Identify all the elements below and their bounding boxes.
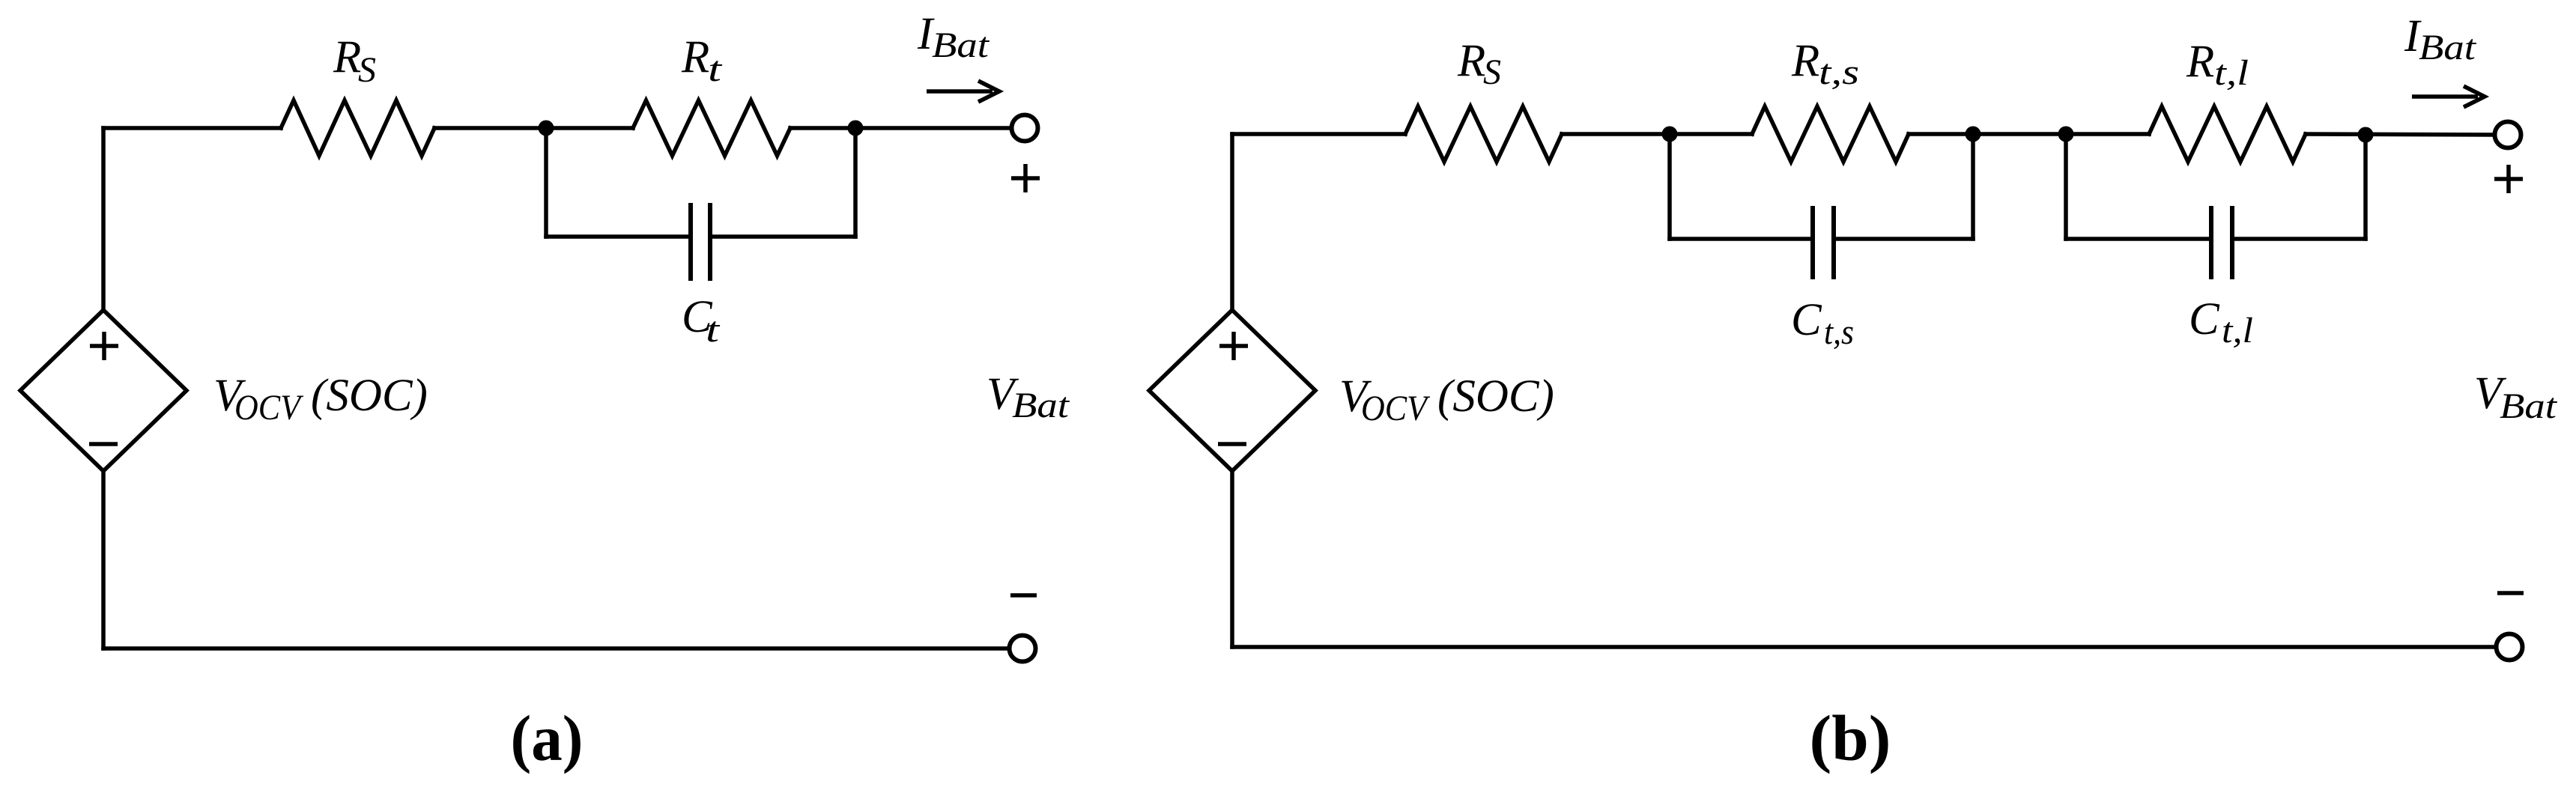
node F junction dot (b): [2358, 127, 2374, 143]
label C_t (a): [682, 292, 721, 350]
wire: (a) cap branch bottom left horizontal to C_t: [546, 234, 691, 239]
svg-text:t,s: t,s: [1819, 52, 1859, 92]
wire: (b) cap1 branch bottom right horizontal from C_t,s: [1834, 237, 1973, 241]
wire: (b) cap2 branch left vertical from node E: [2064, 134, 2068, 239]
svg-text:(a): (a): [511, 702, 584, 774]
terminal circle + (a): [1012, 115, 1038, 142]
wire: (a) cap branch left vertical from node A: [544, 128, 548, 237]
svg-text:t,s: t,s: [1824, 312, 1854, 352]
svg-text:C: C: [1791, 295, 1822, 345]
plus terminal mark (a): [1011, 164, 1040, 192]
label I_Bat (b): [2404, 11, 2477, 67]
terminal circle - (a): [1010, 636, 1036, 662]
wire: (a) top right from R_t through node B to + terminal: [790, 126, 1010, 130]
current arrow I_Bat (b): [2412, 86, 2485, 107]
plus mark inside source (a): [90, 332, 118, 360]
wire: (b) left vertical from top wire down to source top: [1230, 134, 1234, 310]
node C junction dot (b): [1662, 127, 1678, 142]
dependent source U2 V_OCV diamond (b): [1149, 310, 1315, 471]
wire: (a) top middle between R_S and R_t through node A: [434, 126, 633, 130]
node D junction dot (b): [1966, 127, 1981, 142]
svg-text:Bat: Bat: [2500, 386, 2558, 426]
svg-text:(b): (b): [1810, 702, 1891, 774]
minus mark inside source (b): [1218, 442, 1246, 446]
svg-text:R: R: [2186, 37, 2214, 87]
resistor R_t,s (b) zigzag: [1752, 106, 1909, 162]
svg-text:R: R: [333, 32, 361, 82]
svg-text:Bat: Bat: [2419, 28, 2477, 67]
current arrow I_Bat (a): [927, 81, 999, 102]
label V_Bat (a): [987, 369, 1070, 425]
capacitor C_t,s plates (b): [1813, 208, 1834, 277]
wire: (a) cap branch bottom right horizontal from C_t: [710, 234, 855, 239]
svg-text:(SOC): (SOC): [1437, 371, 1554, 422]
svg-text:t,l: t,l: [2214, 53, 2249, 93]
label V_OCV(SOC) (a): [213, 371, 428, 428]
wire: (a) cap branch right vertical up to node B: [853, 128, 858, 237]
wire: (b) left vertical from source bottom to bottom rail: [1230, 471, 1234, 647]
wire: (b) cap2 branch bottom left horizontal to C_t,l: [2066, 237, 2211, 241]
wire: (b) cap1 branch right vertical up to node D: [1971, 134, 1975, 239]
label C_t,s (b): [1791, 295, 1854, 352]
wire: (b) top between R_S and R_t,s through node C: [1562, 132, 1752, 136]
label R_t,l (b): [2186, 37, 2249, 93]
terminal circle - (b): [2497, 634, 2523, 660]
resistor R_S (b) zigzag: [1405, 106, 1562, 162]
label R_S (a): [333, 32, 376, 90]
wire: (b) top-left horizontal from source to R_S: [1232, 132, 1405, 136]
plus mark inside source (b): [1219, 332, 1248, 360]
node B junction dot (a): [848, 121, 864, 136]
svg-text:OCV: OCV: [234, 388, 303, 428]
svg-text:OCV: OCV: [1361, 389, 1430, 428]
label I_Bat (a): [917, 9, 990, 65]
node E junction dot (b): [2058, 127, 2074, 142]
wire: (a) top-left horizontal from source to R_S: [103, 126, 281, 130]
svg-text:(SOC): (SOC): [311, 371, 428, 421]
label V_Bat (b): [2474, 368, 2558, 426]
svg-text:t,l: t,l: [2222, 311, 2253, 350]
resistor R_t (a) zigzag: [633, 100, 790, 156]
wire: (a) left vertical from top wire down to source top: [101, 128, 106, 310]
node A junction dot (a): [539, 121, 554, 136]
svg-text:S: S: [1483, 52, 1501, 92]
label C_t,l (b): [2189, 294, 2253, 350]
minus mark inside source (a): [89, 442, 118, 446]
wire: (b) top between R_t,s and R_t,l through nodes D and E: [1909, 132, 2149, 136]
svg-text:Bat: Bat: [1012, 386, 1070, 425]
svg-text:R: R: [1791, 36, 1819, 86]
wire: (b) bottom rail: [1232, 645, 2494, 649]
wire: (a) bottom rail: [103, 646, 1007, 651]
minus terminal mark (a): [1010, 593, 1037, 598]
svg-text:Bat: Bat: [932, 25, 990, 65]
svg-text:t: t: [706, 310, 721, 350]
resistor R_t,l (b) zigzag: [2149, 106, 2306, 162]
svg-text:R: R: [681, 32, 709, 82]
label R_S (b): [1457, 36, 1501, 92]
label V_OCV(SOC) (b): [1339, 371, 1554, 428]
label R_t,s (b): [1791, 36, 1859, 92]
label R_t (a): [681, 32, 723, 89]
svg-text:C: C: [2189, 294, 2220, 344]
resistor R_S (a) zigzag: [281, 100, 434, 156]
svg-text:R: R: [1457, 36, 1485, 86]
capacitor C_t plates (a): [691, 205, 710, 279]
terminal circle + (b): [2495, 122, 2521, 148]
minus terminal mark (b): [2497, 591, 2524, 595]
wire: (a) left vertical from source bottom to bottom rail: [101, 471, 106, 648]
wire: (b) cap1 branch bottom left horizontal to C_t,s: [1670, 237, 1813, 241]
dependent source U1 V_OCV diamond (a): [20, 310, 187, 471]
plus terminal mark (b): [2494, 165, 2523, 193]
wire: (b) cap1 branch left vertical from node C: [1667, 134, 1672, 239]
wire: (b) cap2 branch bottom right horizontal from C_t,l: [2232, 237, 2366, 241]
svg-text:t: t: [708, 49, 723, 89]
wire: (b) top right from R_t,l through node F to + terminal: [2306, 134, 2493, 135]
wire: (b) cap2 branch right vertical up to node F: [2363, 134, 2368, 239]
svg-text:S: S: [358, 50, 376, 90]
capacitor C_t,l plates (b): [2211, 208, 2232, 277]
